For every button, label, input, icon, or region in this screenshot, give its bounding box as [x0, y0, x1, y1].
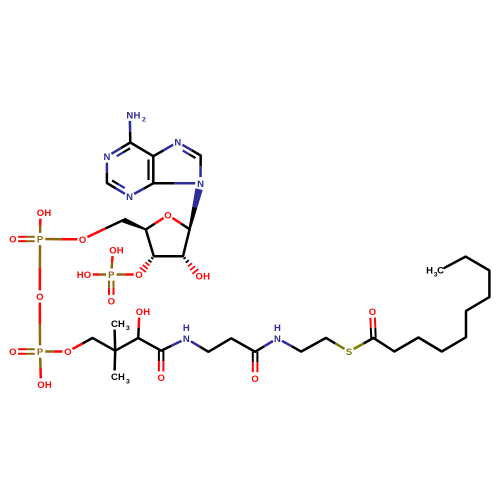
svg-text:N: N	[183, 334, 190, 345]
atom label O (Oes)	[64, 347, 71, 358]
bond C6=N1	[111, 143, 130, 157]
atom label O (Ot)	[369, 307, 376, 318]
bond C2'-OH (hashed wedge)	[184, 257, 199, 274]
bond C8-C9	[466, 257, 490, 271]
bond C3'-C2'	[154, 255, 183, 258]
bond Cb-Cc	[138, 338, 161, 351]
bond Ca-Cq	[93, 338, 116, 351]
atom label O (Of)	[251, 374, 258, 385]
bond S-C1	[354, 338, 374, 349]
bond Cc-N	[161, 341, 181, 351]
svg-text:C: C	[111, 319, 118, 330]
bond Cf-N	[255, 341, 273, 352]
bond N-Cd	[191, 341, 209, 352]
bond O4'-C4'	[146, 218, 164, 230]
bond Cq-CH3b	[113, 351, 116, 371]
svg-text:N: N	[274, 334, 281, 345]
bond C4'-C5' (wedge)	[122, 218, 146, 231]
atom label N (Nam2)	[274, 334, 281, 345]
atom label OH (pantoyl)	[136, 307, 151, 318]
atom label N (N7)	[174, 138, 181, 149]
svg-text:N: N	[126, 110, 133, 121]
bond P2=O	[109, 281, 114, 295]
bond N7=C8	[182, 145, 200, 158]
bond C4=C5	[149, 156, 154, 183]
svg-text:N: N	[126, 192, 133, 203]
svg-text:O: O	[9, 235, 16, 246]
atom label N (N1)	[103, 152, 110, 163]
atom label P (P3)	[37, 347, 44, 358]
atom label OH (ribose 2-OH)	[196, 272, 211, 283]
atom label O (O4')	[164, 211, 171, 222]
svg-text:H: H	[118, 372, 125, 383]
atom label P (P1)	[37, 235, 44, 246]
bond Oes-Ca	[73, 338, 93, 349]
bond N9-C1' (wedge)	[189, 188, 203, 229]
bond P3=O	[18, 349, 35, 354]
bond Cb-OH	[137, 318, 140, 338]
svg-text:O: O	[164, 211, 171, 222]
svg-text:N: N	[103, 152, 110, 163]
bond C5-N7	[153, 145, 173, 157]
atom label NH2	[126, 110, 146, 123]
svg-text:H: H	[274, 323, 281, 334]
svg-text:H: H	[117, 246, 124, 257]
bond Cd-Ce	[208, 338, 231, 352]
bond Ce-Cf	[231, 338, 255, 352]
svg-text:H: H	[44, 208, 51, 219]
atom label S (S)	[346, 347, 352, 358]
svg-text:H: H	[426, 265, 433, 276]
atom label HO (P2 left)	[77, 270, 91, 281]
bond C2'-C1'	[183, 229, 190, 256]
svg-text:O: O	[9, 347, 16, 358]
svg-text:H: H	[77, 270, 84, 281]
bond C3'-O3' (hashed wedge)	[140, 257, 153, 272]
atom label O (O3')	[135, 270, 142, 281]
bond C1=O	[370, 318, 375, 339]
svg-text:H: H	[183, 323, 190, 334]
bond Ch-S	[326, 338, 345, 349]
bond C1-C2	[374, 338, 395, 352]
svg-text:S: S	[346, 347, 352, 358]
bond O5'-P1	[45, 238, 77, 241]
bond C8-N9	[199, 156, 202, 178]
svg-text:H: H	[203, 272, 210, 283]
svg-text:O: O	[108, 297, 115, 308]
bond C5'-O5'	[87, 220, 123, 237]
svg-text:O: O	[36, 292, 43, 303]
bond C7-C8	[488, 271, 491, 298]
bond N-Cg	[282, 341, 301, 352]
svg-text:N: N	[197, 179, 204, 190]
atom label O (O3d)	[9, 347, 16, 358]
bond N1-C2	[106, 163, 109, 183]
bond O3'-P2	[117, 273, 134, 276]
atom label OH (P1)	[37, 208, 52, 219]
atom label O (O2d)	[108, 297, 115, 308]
svg-text:O: O	[109, 246, 116, 257]
bond Obr-P3	[39, 303, 42, 346]
svg-text:P: P	[37, 347, 44, 358]
bond P2-HO	[93, 273, 106, 276]
svg-text:H: H	[118, 319, 125, 330]
bond P1-OH	[39, 219, 42, 233]
atom label O (O1d)	[9, 235, 16, 246]
bond P3-Oes	[45, 350, 62, 353]
bond C2-C3	[394, 338, 418, 352]
atom label O (Oc)	[158, 373, 165, 384]
bond NH2-C6	[129, 121, 132, 143]
svg-text:O: O	[158, 373, 165, 384]
bond C6-C7	[466, 297, 489, 311]
atom label N (N9)	[197, 179, 204, 190]
svg-text:3: 3	[126, 378, 130, 385]
svg-text:P: P	[108, 270, 115, 281]
svg-text:O: O	[136, 307, 143, 318]
amide H 1	[183, 323, 190, 334]
bond Cq-CH3a	[113, 330, 116, 351]
svg-text:O: O	[64, 347, 71, 358]
svg-text:O: O	[37, 208, 44, 219]
atom label N (Nam1)	[183, 334, 190, 345]
svg-text:P: P	[37, 235, 44, 246]
carbon vertex joints	[91, 141, 490, 353]
svg-text:O: O	[251, 374, 258, 385]
atom label CH3 (gem-dimethyl bottom)	[111, 372, 130, 385]
svg-text:O: O	[135, 270, 142, 281]
bond C9-C10	[444, 257, 466, 269]
bond C2=N3	[107, 181, 125, 194]
bond C4-C5	[442, 337, 466, 351]
atom label OH (P2 top)	[109, 246, 124, 257]
atom label OH (P3)	[37, 380, 52, 391]
atom label O (Obr)	[36, 292, 43, 303]
svg-text:O: O	[369, 307, 376, 318]
bond Cc=O	[159, 351, 164, 372]
atom label N (N3)	[126, 192, 133, 203]
bond N3-C4	[134, 183, 153, 194]
bond C3-C4	[418, 338, 441, 352]
atom label H3C (decanoyl terminus)	[426, 265, 444, 278]
bond Cg-Ch	[301, 338, 326, 352]
svg-text:C: C	[111, 372, 118, 383]
bond C4'-C3'	[146, 230, 154, 257]
bond P2-OH	[110, 256, 113, 268]
bond P1-Obr	[39, 245, 42, 290]
svg-text:2: 2	[142, 116, 146, 123]
bond C1'-O4'	[172, 218, 189, 229]
bond N9-C4	[153, 182, 195, 185]
svg-text:3: 3	[126, 325, 130, 332]
bond Cf=O	[253, 352, 258, 372]
svg-text:H: H	[143, 307, 150, 318]
atom label CH3 (gem-dimethyl top)	[111, 319, 130, 332]
bond Cq-Cb	[115, 338, 138, 351]
svg-text:C: C	[437, 265, 444, 276]
bond P3-OH	[39, 358, 42, 379]
svg-text:O: O	[196, 272, 203, 283]
svg-text:O: O	[37, 380, 44, 391]
svg-text:H: H	[133, 110, 140, 121]
svg-text:H: H	[45, 380, 52, 391]
svg-text:O: O	[84, 270, 91, 281]
bond C5-C6	[130, 143, 153, 157]
amide H 2	[274, 323, 281, 334]
atom label P (P2)	[108, 270, 115, 281]
svg-text:N: N	[174, 138, 181, 149]
svg-text:O: O	[79, 235, 86, 246]
atom label O (O5')	[79, 235, 86, 246]
bond P1=O	[18, 237, 35, 241]
bond C5-C6	[465, 311, 468, 337]
